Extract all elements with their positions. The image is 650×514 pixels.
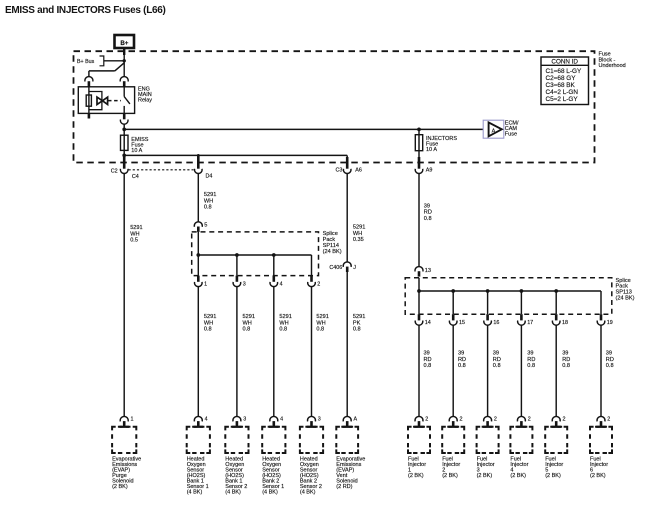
connector EVAP purge solenoid pin 1 bbox=[120, 416, 128, 421]
wire 5291 WH 0.8 to HO2S bank2 sensor2 bbox=[311, 286, 313, 416]
svg-text:1: 1 bbox=[204, 281, 207, 287]
wire 5291 WH 0.8 to HO2S bank2 sensor1 bbox=[273, 286, 275, 416]
svg-text:2: 2 bbox=[460, 416, 463, 422]
connector D4 bbox=[197, 156, 200, 169]
svg-text:5291: 5291 bbox=[316, 314, 328, 320]
svg-text:C2=68 GY: C2=68 GY bbox=[546, 75, 577, 82]
svg-text:A: A bbox=[492, 128, 496, 134]
connector SP114 pin 2 bbox=[310, 276, 313, 282]
svg-text:A6: A6 bbox=[355, 168, 362, 174]
component HO2S B1S1 bbox=[187, 427, 210, 453]
svg-text:RD: RD bbox=[424, 357, 432, 363]
svg-text:5291: 5291 bbox=[204, 314, 216, 320]
svg-text:39: 39 bbox=[562, 351, 568, 357]
connector SP113 pin 19 bbox=[600, 314, 603, 320]
svg-text:(2 RD): (2 RD) bbox=[336, 484, 352, 490]
svg-text:39: 39 bbox=[424, 203, 430, 209]
svg-text:16: 16 bbox=[493, 320, 499, 326]
svg-text:C4: C4 bbox=[132, 174, 139, 180]
connector SP114 pin 1 bbox=[197, 276, 200, 282]
wire 5291 WH 0.5 to EVAP purge solenoid bbox=[123, 173, 125, 416]
svg-text:4: 4 bbox=[205, 416, 208, 422]
wire 5291 PK 0.8 to EVAP vent solenoid bbox=[346, 272, 348, 417]
svg-text:(4 BK): (4 BK) bbox=[225, 490, 241, 496]
connector fuel injector 5 pin 2 bbox=[552, 416, 560, 421]
connector relay switch output bbox=[123, 113, 126, 119]
relay ENG MAIN outline bbox=[78, 87, 134, 114]
svg-text:C406: C406 bbox=[329, 265, 342, 271]
B+ power feed terminal bbox=[115, 35, 135, 48]
connector SP114 pin 4 bbox=[272, 276, 275, 282]
svg-text:RD: RD bbox=[424, 210, 432, 216]
svg-text:RD: RD bbox=[527, 357, 535, 363]
svg-text:WH: WH bbox=[316, 320, 325, 326]
connector EVAP vent solenoid pin A bbox=[343, 416, 351, 421]
svg-text:10 A: 10 A bbox=[131, 148, 142, 154]
svg-text:C5=2 L-GY: C5=2 L-GY bbox=[546, 96, 579, 103]
svg-text:EMISS and INJECTORS Fuses (L66: EMISS and INJECTORS Fuses (L66) bbox=[5, 5, 166, 16]
connector fuel injector 6 pin 2 bbox=[597, 416, 605, 421]
svg-text:5291: 5291 bbox=[243, 314, 255, 320]
svg-text:3: 3 bbox=[318, 416, 321, 422]
svg-text:CONN ID: CONN ID bbox=[551, 58, 578, 65]
svg-text:3: 3 bbox=[243, 416, 246, 422]
connector HO2S B1S2 pin 3 bbox=[233, 416, 241, 421]
component EVAP purge solenoid bbox=[112, 427, 136, 453]
component fuel injector 1 bbox=[408, 427, 430, 453]
svg-text:2: 2 bbox=[607, 416, 610, 422]
svg-text:Underhood: Underhood bbox=[599, 63, 626, 69]
connector SP113 pin 17 bbox=[520, 314, 523, 320]
svg-text:5291: 5291 bbox=[353, 314, 365, 320]
svg-text:(4 BK): (4 BK) bbox=[187, 490, 203, 496]
CONN ID table bbox=[541, 57, 589, 105]
svg-text:WH: WH bbox=[130, 231, 139, 237]
connector HO2S B2S2 pin 3 bbox=[308, 416, 316, 421]
svg-text:(2 BK): (2 BK) bbox=[112, 484, 128, 490]
svg-text:39: 39 bbox=[424, 351, 430, 357]
svg-text:RD: RD bbox=[562, 357, 570, 363]
svg-text:13: 13 bbox=[425, 268, 431, 274]
connector HO2S B2S1 pin 4 bbox=[270, 416, 278, 421]
wire B+ bus to relay coil bbox=[104, 60, 124, 62]
svg-text:(2 BK): (2 BK) bbox=[477, 473, 493, 479]
connector fuel injector 2 pin 2 bbox=[449, 416, 457, 421]
svg-text:2: 2 bbox=[494, 416, 497, 422]
connector SP113 pin 16 bbox=[486, 314, 489, 320]
svg-text:(2 BK): (2 BK) bbox=[590, 473, 606, 479]
svg-text:Relay: Relay bbox=[138, 98, 152, 104]
svg-text:WH: WH bbox=[204, 320, 213, 326]
svg-text:WH: WH bbox=[204, 198, 213, 204]
node B+ junction bbox=[123, 59, 126, 62]
relay coil ground stub bbox=[88, 113, 91, 118]
svg-text:2: 2 bbox=[563, 416, 566, 422]
ECM/CAM fuse reference symbol bbox=[483, 120, 504, 138]
node bus at EMISS fuse bbox=[122, 128, 126, 132]
relay switch contact bbox=[123, 87, 125, 97]
svg-text:5291: 5291 bbox=[130, 225, 142, 231]
svg-text:WH: WH bbox=[353, 231, 362, 237]
svg-text:2: 2 bbox=[425, 416, 428, 422]
component fuel injector 3 bbox=[477, 427, 499, 453]
svg-text:5: 5 bbox=[204, 222, 207, 228]
connector same-connector dotted tie C4-D4 bbox=[129, 169, 194, 171]
svg-text:C3=68 BK: C3=68 BK bbox=[546, 82, 576, 89]
connector C2 / C4 bbox=[123, 157, 126, 169]
svg-text:0.8: 0.8 bbox=[606, 363, 614, 369]
svg-text:(2 BK): (2 BK) bbox=[442, 473, 458, 479]
connector fuel injector 1 pin 2 bbox=[415, 416, 423, 421]
svg-text:0.8: 0.8 bbox=[527, 363, 535, 369]
relay coil winding bbox=[88, 87, 90, 114]
svg-text:17: 17 bbox=[527, 320, 533, 326]
relay driver diode pair bbox=[97, 97, 102, 104]
svg-text:RD: RD bbox=[458, 357, 466, 363]
node EMISS fuse output bbox=[122, 154, 126, 158]
fuse block underhood dashed boundary bbox=[74, 51, 595, 162]
splice pack SP114 dashed boundary bbox=[192, 232, 319, 276]
relay internal loop wire bbox=[89, 92, 102, 110]
connector fuel injector 4 pin 2 bbox=[517, 416, 525, 421]
svg-text:RD: RD bbox=[493, 357, 501, 363]
svg-text:0.8: 0.8 bbox=[458, 363, 466, 369]
wire 5291 WH 0.8 to HO2S bank1 sensor1 bbox=[197, 286, 199, 416]
svg-text:B+: B+ bbox=[120, 40, 128, 47]
svg-text:15: 15 bbox=[459, 320, 465, 326]
svg-text:39: 39 bbox=[606, 351, 612, 357]
connector relay coil input bbox=[85, 77, 93, 82]
wire 5291 WH 0.35 from A6 to C406 bbox=[346, 173, 348, 262]
svg-text:0.8: 0.8 bbox=[493, 363, 501, 369]
connector relay switch input bbox=[120, 77, 128, 82]
svg-text:D4: D4 bbox=[206, 174, 213, 180]
splice pack SP113 dashed boundary bbox=[405, 278, 612, 314]
node bus at INJECTORS fuse bbox=[417, 128, 421, 132]
svg-text:RD: RD bbox=[606, 357, 614, 363]
svg-text:PK: PK bbox=[353, 320, 361, 326]
connector C3 / A6 bbox=[346, 157, 349, 169]
relay actuation dashed link bbox=[108, 100, 121, 102]
svg-text:2: 2 bbox=[317, 281, 320, 287]
svg-text:5291: 5291 bbox=[353, 225, 365, 231]
svg-text:14: 14 bbox=[425, 320, 431, 326]
svg-text:0.8: 0.8 bbox=[562, 363, 570, 369]
svg-text:(24 BK): (24 BK) bbox=[616, 295, 635, 301]
component EVAP vent solenoid bbox=[336, 427, 358, 453]
node SP114 junctions bbox=[196, 253, 200, 257]
wire EMISS fuse output rail bbox=[124, 154, 347, 156]
connector A9 bbox=[418, 157, 421, 169]
wire main bus from relay to ECM/CAM fuse bbox=[124, 128, 483, 130]
svg-text:C2: C2 bbox=[111, 169, 118, 175]
wire 39 RD 0.8 from A9 to splice pack pin 13 bbox=[418, 173, 420, 266]
fuse EMISS 10 A bbox=[123, 129, 125, 155]
splice SP114 internal bus bbox=[197, 232, 199, 276]
svg-text:(2 BK): (2 BK) bbox=[510, 473, 526, 479]
svg-text:0.8: 0.8 bbox=[353, 327, 361, 333]
connector C406 pin J bbox=[343, 262, 351, 267]
svg-text:3: 3 bbox=[243, 281, 246, 287]
svg-text:0.8: 0.8 bbox=[424, 216, 432, 222]
fuse INJECTORS 10 A bbox=[418, 129, 420, 162]
wires 39 RD 0.8 to fuel injectors bbox=[418, 325, 420, 417]
connector SP113 pin 15 bbox=[452, 314, 455, 320]
svg-text:5291: 5291 bbox=[279, 314, 291, 320]
svg-text:0.8: 0.8 bbox=[316, 327, 324, 333]
component fuel injector 4 bbox=[510, 427, 532, 453]
svg-text:4: 4 bbox=[280, 416, 283, 422]
splice SP113 internal bus bbox=[418, 278, 420, 314]
component HO2S B2S2 bbox=[300, 427, 323, 453]
wire B+ feed down to relay switch bbox=[123, 48, 125, 55]
svg-text:39: 39 bbox=[527, 351, 533, 357]
connector SP113 pin 18 bbox=[555, 314, 558, 320]
svg-text:(4 BK): (4 BK) bbox=[300, 490, 316, 496]
connector fuel injector 3 pin 2 bbox=[484, 416, 492, 421]
svg-text:A9: A9 bbox=[426, 168, 433, 174]
connector HO2S B1S1 pin 4 bbox=[194, 416, 202, 421]
svg-text:39: 39 bbox=[493, 351, 499, 357]
svg-text:0.8: 0.8 bbox=[279, 327, 287, 333]
connector SP114 pin 3 bbox=[236, 276, 239, 282]
svg-text:39: 39 bbox=[458, 351, 464, 357]
svg-text:C4=2 L-GN: C4=2 L-GN bbox=[546, 89, 579, 96]
wire 5291 WH 0.8 from D4 to splice pack pin 5 bbox=[197, 173, 199, 222]
svg-text:C1=68 L-GY: C1=68 L-GY bbox=[546, 68, 582, 75]
svg-text:B+ Bus: B+ Bus bbox=[77, 59, 95, 65]
svg-text:0.8: 0.8 bbox=[424, 363, 432, 369]
component fuel injector 2 bbox=[442, 427, 464, 453]
svg-text:(4 BK): (4 BK) bbox=[262, 490, 278, 496]
svg-text:2: 2 bbox=[528, 416, 531, 422]
component HO2S B2S1 bbox=[262, 427, 285, 453]
svg-text:1: 1 bbox=[131, 416, 134, 422]
component HO2S B1S2 bbox=[225, 427, 248, 453]
svg-text:0.35: 0.35 bbox=[353, 237, 364, 243]
wire 5291 WH 0.8 to HO2S bank1 sensor2 bbox=[236, 286, 238, 416]
svg-text:0.8: 0.8 bbox=[204, 205, 212, 211]
svg-text:(2 BK): (2 BK) bbox=[545, 473, 561, 479]
svg-text:4: 4 bbox=[280, 281, 283, 287]
component fuel injector 5 bbox=[545, 427, 567, 453]
svg-text:0.8: 0.8 bbox=[243, 327, 251, 333]
svg-text:J: J bbox=[353, 265, 356, 271]
node SP113 junctions bbox=[417, 289, 421, 293]
connector splice pack SP114 pin 5 bbox=[194, 222, 202, 227]
svg-text:A: A bbox=[354, 416, 358, 422]
svg-text:0.8: 0.8 bbox=[204, 327, 212, 333]
svg-text:Fuse: Fuse bbox=[505, 132, 517, 138]
svg-text:C3: C3 bbox=[335, 168, 342, 174]
connector SP113 pin 14 bbox=[418, 314, 421, 320]
svg-text:0.5: 0.5 bbox=[130, 238, 138, 244]
svg-text:18: 18 bbox=[562, 320, 568, 326]
svg-text:WH: WH bbox=[243, 320, 252, 326]
svg-text:(2 BK): (2 BK) bbox=[408, 473, 424, 479]
svg-text:10 A: 10 A bbox=[426, 147, 437, 153]
svg-text:(24 BK): (24 BK) bbox=[323, 249, 342, 255]
svg-text:19: 19 bbox=[607, 320, 613, 326]
svg-text:WH: WH bbox=[279, 320, 288, 326]
connector splice pack SP113 pin 13 bbox=[415, 267, 423, 272]
svg-text:5291: 5291 bbox=[204, 192, 216, 198]
component fuel injector 6 bbox=[590, 427, 612, 453]
